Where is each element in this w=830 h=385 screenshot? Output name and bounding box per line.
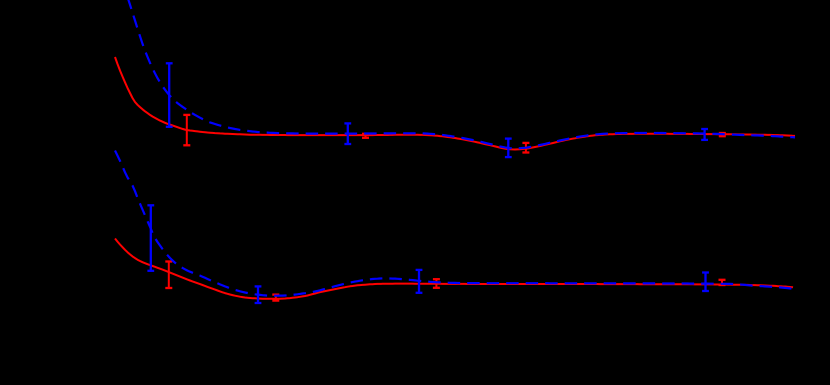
bottom red errorbar 4	[719, 280, 726, 285]
top blue errorbar 1	[166, 63, 173, 127]
bottom panel red solid curve	[115, 239, 793, 299]
top red errorbar 3	[522, 143, 529, 153]
top red errorbar 2	[362, 134, 369, 138]
top panel red solid curve	[115, 57, 795, 150]
bottom red errorbar 3	[433, 279, 440, 288]
top blue errorbar 3	[505, 139, 512, 158]
bottom panel blue dashed curve	[115, 151, 794, 296]
bottom blue errorbar 4	[702, 273, 709, 292]
bottom blue errorbar 3	[416, 270, 423, 293]
top red errorbar 1	[183, 115, 190, 145]
top panel blue dashed curve	[128, 0, 796, 148]
bottom red errorbar 1	[165, 262, 172, 289]
bottom blue errorbar 2	[255, 286, 262, 303]
top blue errorbar 4	[701, 129, 708, 140]
top blue errorbar 2	[344, 123, 351, 144]
bottom blue errorbar 1	[147, 205, 154, 270]
bottom red errorbar 2	[272, 295, 279, 301]
top red errorbar 4	[719, 133, 726, 136]
